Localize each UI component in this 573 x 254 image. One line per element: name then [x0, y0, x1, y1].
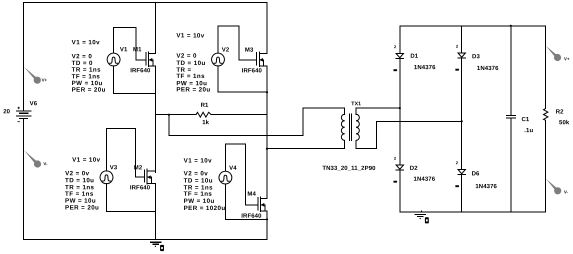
svg-text:V3: V3: [110, 165, 118, 171]
svg-text:.1u: .1u: [524, 128, 533, 134]
svg-text:1N4376: 1N4376: [414, 177, 436, 183]
svg-text:IRF640: IRF640: [241, 214, 262, 220]
svg-text:M1: M1: [133, 47, 142, 53]
svg-text:IRF640: IRF640: [242, 68, 263, 74]
svg-text:TX1: TX1: [351, 101, 361, 107]
svg-text:V+: V+: [42, 78, 48, 83]
svg-text:PW = 10u: PW = 10u: [184, 198, 215, 205]
svg-text:V1: V1: [120, 47, 128, 53]
svg-text:1N4376: 1N4376: [477, 66, 499, 72]
svg-text:V6: V6: [30, 101, 38, 107]
svg-text:V2: V2: [222, 48, 230, 54]
svg-text:V-: V-: [564, 189, 569, 194]
svg-text:1k: 1k: [202, 120, 209, 126]
svg-text:D3: D3: [472, 54, 480, 60]
svg-text:V1 = 10v: V1 = 10v: [176, 32, 204, 39]
svg-text:V1 = 10v: V1 = 10v: [72, 157, 100, 164]
svg-text:M4: M4: [247, 192, 256, 198]
svg-text:D1: D1: [410, 54, 418, 60]
svg-text:V+: V+: [564, 56, 570, 61]
svg-text:V1 = 10v: V1 = 10v: [72, 39, 100, 46]
svg-text:IRF640: IRF640: [130, 68, 151, 74]
svg-text:1N4376: 1N4376: [414, 65, 436, 71]
svg-text:PER = 20u: PER = 20u: [65, 204, 99, 211]
svg-text:M3: M3: [245, 48, 254, 54]
svg-text:V2 = 0: V2 = 0: [176, 53, 197, 60]
svg-text:V-: V-: [43, 161, 48, 166]
svg-text:D2: D2: [410, 166, 418, 172]
svg-text:M2: M2: [134, 165, 143, 171]
svg-text:IRF640: IRF640: [130, 185, 151, 191]
svg-text:R1: R1: [201, 103, 209, 109]
svg-text:V4: V4: [229, 166, 237, 172]
svg-text:TF = 1ns: TF = 1ns: [184, 191, 213, 198]
svg-text:V2 = 0v: V2 = 0v: [184, 170, 209, 177]
svg-text:TD = 10u: TD = 10u: [184, 178, 213, 185]
svg-text:V1 = 10v: V1 = 10v: [184, 158, 212, 165]
svg-text:TD = 10u: TD = 10u: [65, 177, 94, 184]
svg-text:PER = 1020u: PER = 1020u: [184, 205, 226, 212]
svg-text:TF = 1ns: TF = 1ns: [176, 73, 205, 80]
svg-text:50k: 50k: [559, 120, 570, 126]
svg-text:D6: D6: [472, 171, 480, 177]
svg-text:R2: R2: [556, 110, 564, 116]
svg-text:PER = 20u: PER = 20u: [72, 87, 106, 94]
svg-text:1N4376: 1N4376: [475, 184, 497, 190]
svg-text:TN33_20_11_2P90: TN33_20_11_2P90: [322, 166, 376, 172]
svg-text:C1: C1: [522, 117, 530, 123]
svg-text:PER = 20u: PER = 20u: [176, 86, 210, 93]
svg-text:20: 20: [3, 109, 10, 115]
svg-text:V2 = 0v: V2 = 0v: [65, 170, 90, 177]
